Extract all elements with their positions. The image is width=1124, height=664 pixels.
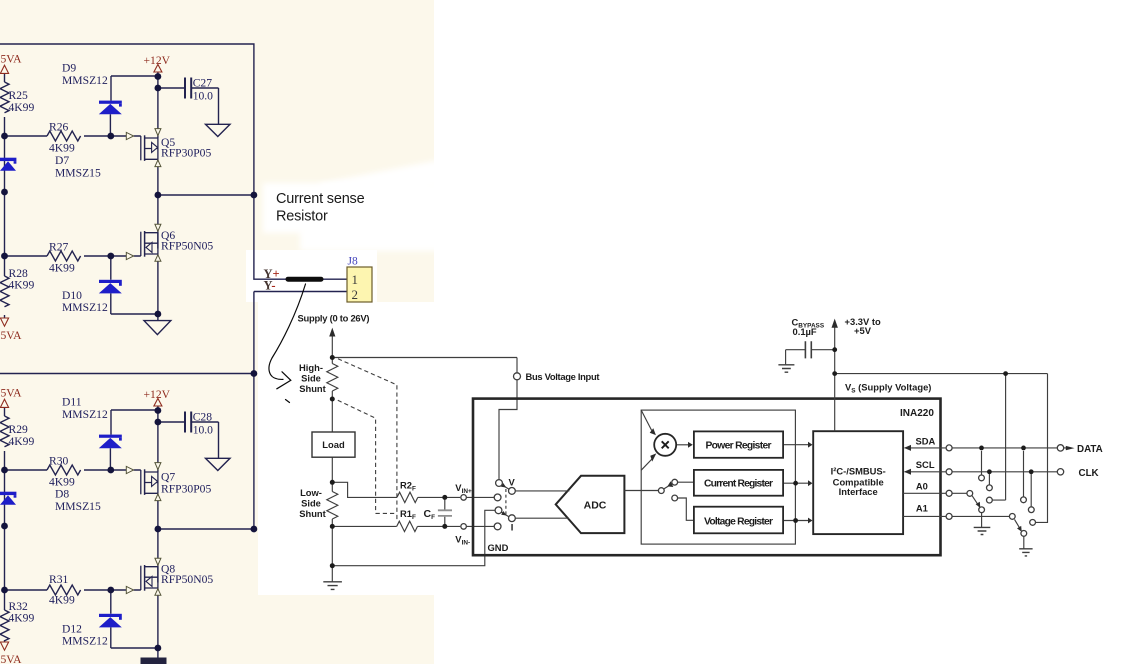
svg-text:MMSZ12: MMSZ12	[62, 635, 108, 648]
svg-text:Current Register: Current Register	[704, 479, 773, 490]
svg-text:MMSZ15: MMSZ15	[55, 167, 101, 180]
svg-text:ADC: ADC	[584, 499, 607, 511]
svg-text:D8: D8	[55, 488, 69, 501]
svg-text:+12V: +12V	[144, 388, 171, 401]
svg-text:Side: Side	[301, 373, 321, 384]
svg-text:MMSZ12: MMSZ12	[62, 408, 108, 421]
svg-text:10.0: 10.0	[193, 423, 213, 436]
svg-text:0.1µF: 0.1µF	[793, 326, 817, 337]
svg-text:5VA: 5VA	[1, 387, 23, 400]
svg-text:Bus Voltage Input: Bus Voltage Input	[526, 371, 600, 382]
svg-text:A0: A0	[916, 480, 928, 491]
svg-text:2: 2	[352, 287, 359, 302]
svg-text:Load: Load	[322, 439, 345, 450]
svg-text:MMSZ15: MMSZ15	[55, 500, 101, 513]
svg-text:4K99: 4K99	[49, 594, 75, 607]
svg-text:I: I	[511, 522, 514, 533]
svg-text:Interface: Interface	[839, 486, 878, 497]
svg-text:D9: D9	[62, 62, 76, 75]
svg-text:Power Register: Power Register	[706, 440, 772, 451]
svg-text:MMSZ12: MMSZ12	[62, 301, 108, 314]
svg-text:DATA: DATA	[1077, 444, 1103, 455]
svg-text:4K99: 4K99	[49, 262, 75, 275]
svg-text:RFP50N05: RFP50N05	[161, 240, 213, 253]
svg-text:Low-: Low-	[300, 487, 322, 498]
svg-text:4K99: 4K99	[49, 142, 75, 155]
svg-text:10.0: 10.0	[193, 89, 213, 102]
svg-text:4K99: 4K99	[9, 279, 35, 292]
svg-text:SCL: SCL	[916, 459, 935, 470]
svg-text:R27: R27	[49, 241, 69, 254]
svg-text:D7: D7	[55, 154, 69, 167]
svg-text:GND: GND	[488, 542, 509, 553]
svg-text:Supply (0 to 26V): Supply (0 to 26V)	[298, 313, 370, 324]
svg-text:RFP30P05: RFP30P05	[161, 146, 211, 159]
svg-text:4K99: 4K99	[9, 612, 35, 625]
svg-text:A1: A1	[916, 503, 928, 514]
svg-text:High-: High-	[299, 362, 323, 373]
svg-text:C27: C27	[193, 77, 213, 90]
svg-text:MMSZ12: MMSZ12	[62, 74, 108, 87]
svg-text:Current sense: Current sense	[276, 191, 365, 207]
svg-text:+5V: +5V	[854, 325, 872, 336]
svg-text:Side: Side	[301, 498, 321, 509]
svg-text:J8: J8	[348, 256, 358, 268]
svg-text:R30: R30	[49, 455, 69, 468]
svg-text:5VA: 5VA	[1, 53, 23, 66]
svg-text:1: 1	[352, 272, 359, 287]
svg-text:V: V	[509, 476, 516, 487]
svg-text:4K99: 4K99	[9, 435, 35, 448]
svg-text:R31: R31	[49, 573, 69, 586]
svg-text:D11: D11	[62, 396, 82, 409]
svg-text:I²C-/SMBUS-: I²C-/SMBUS-	[831, 465, 886, 476]
svg-text:RFP30P05: RFP30P05	[161, 482, 211, 495]
svg-text:RFP50N05: RFP50N05	[161, 573, 213, 586]
svg-text:Shunt: Shunt	[299, 383, 326, 394]
svg-text:C28: C28	[193, 411, 213, 424]
svg-text:+12V: +12V	[144, 54, 171, 67]
svg-text:5VA: 5VA	[1, 329, 23, 342]
svg-text:R26: R26	[49, 121, 69, 134]
svg-text:CLK: CLK	[1079, 468, 1099, 479]
svg-text:Resistor: Resistor	[276, 209, 328, 225]
svg-text:Voltage Register: Voltage Register	[704, 516, 773, 527]
svg-text:SDA: SDA	[916, 436, 936, 447]
svg-text:Y-: Y-	[264, 279, 276, 293]
svg-text:Shunt: Shunt	[299, 508, 326, 519]
svg-text:INA220: INA220	[900, 408, 934, 419]
svg-text:4K99: 4K99	[9, 101, 35, 114]
svg-text:5VA: 5VA	[1, 653, 23, 664]
